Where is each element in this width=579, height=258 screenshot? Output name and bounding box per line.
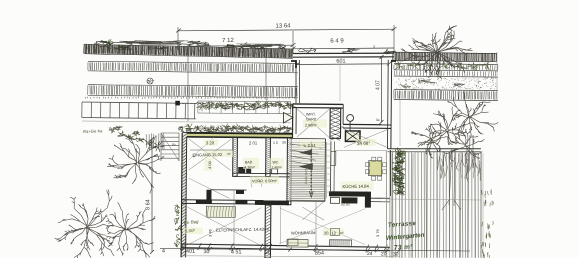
- exterior stair: [161, 133, 179, 161]
- shaft box with X: [345, 131, 360, 142]
- svg-text:3 76: 3 76: [375, 228, 380, 237]
- deck board break line: [387, 199, 482, 200]
- svg-text:20.: 20.: [324, 230, 330, 235]
- wardrobe line entrance: [190, 149, 232, 151]
- bedroom diagonals: [187, 207, 261, 246]
- svg-text:VORR. 6.50m²: VORR. 6.50m²: [252, 179, 278, 183]
- svg-text:7 12: 7 12: [222, 38, 234, 44]
- bath fixtures dark: [238, 167, 245, 174]
- svg-text:WC: WC: [272, 160, 278, 164]
- svg-text:m²: m²: [340, 231, 344, 235]
- garage corner marks: [291, 61, 296, 68]
- svg-text:854: 854: [315, 250, 324, 256]
- palm hanging fringe: [437, 153, 481, 183]
- svg-text:m²: m²: [227, 152, 231, 156]
- svg-text:24: 24: [367, 251, 373, 257]
- winter garden diagonal: [297, 109, 329, 137]
- dining table with chairs: [369, 161, 382, 176]
- south wall: [182, 244, 390, 247]
- svg-text:GARD.: GARD.: [306, 117, 317, 121]
- hedge band lower right: [394, 89, 498, 100]
- interior wall stair hall: [287, 138, 292, 205]
- svg-text:ELTERNSCHLAFZ. 14.42m²: ELTERNSCHLAFZ. 14.42m²: [216, 227, 270, 233]
- palm trunks: [442, 135, 473, 210]
- scatter shrubs left: [109, 127, 116, 133]
- north wall right wing: [343, 123, 391, 125]
- svg-text:E̲INGANG 15.02: E̲INGANG 15.02: [192, 152, 223, 158]
- small furniture boxes above dim: [288, 239, 298, 246]
- svg-text:3 20: 3 20: [206, 140, 215, 145]
- dimension line 13 64: [176, 25, 397, 53]
- svg-text:6 4 9: 6 4 9: [330, 38, 344, 44]
- tree 1 top right: [401, 26, 473, 80]
- svg-text:3: 3: [373, 45, 375, 49]
- shrub row above north wall: [178, 126, 188, 132]
- stair walking line beads: [310, 142, 312, 194]
- svg-text:3 46: 3 46: [208, 228, 213, 237]
- west wall: [181, 133, 187, 258]
- radiator: [330, 240, 352, 247]
- svg-text:BAD: BAD: [245, 160, 253, 164]
- svg-text:1o: 1o: [150, 144, 154, 148]
- svg-text:5.60²: 5.60²: [185, 228, 196, 234]
- tree 2 right middle: [424, 107, 475, 145]
- planter strip east of house: [395, 148, 405, 155]
- east wall: [386, 60, 389, 149]
- central wall T: [255, 200, 289, 205]
- winter garden hatched wall column: [330, 108, 341, 138]
- svg-text:3d: 3d: [282, 140, 286, 144]
- svg-text:≥2.02: ≥2.02: [341, 202, 350, 206]
- corridor wall below bath: [233, 172, 292, 175]
- wohnraum west edge faint: [280, 206, 282, 244]
- svg-text:4 04: 4 04: [207, 160, 212, 169]
- fence band lower left: [88, 84, 298, 97]
- svg-text:9o: 9o: [172, 142, 176, 146]
- star plants on right wall: [395, 61, 403, 70]
- east wall lower: [390, 150, 392, 196]
- living room diagonals: [279, 208, 365, 245]
- entrance room diagonals: [189, 139, 231, 170]
- tree 3 left middle: [107, 134, 164, 193]
- svg-text:Bu·Bag: Bu·Bag: [184, 219, 200, 225]
- entrance triangle marker: [284, 113, 294, 124]
- kitchen counters dark: [331, 151, 336, 165]
- svg-text:WINT.: WINT.: [306, 112, 316, 116]
- kitchen west wall: [329, 141, 331, 191]
- faint bottom line: [180, 255, 400, 258]
- garage top wall double line: [293, 52, 394, 54]
- fence band upper left: [88, 61, 298, 73]
- terrace deck boards: [386, 151, 481, 258]
- second grid line below pergola: [82, 121, 196, 122]
- svg-text:↳ 2.51: ↳ 2.51: [303, 143, 317, 148]
- column circle: [347, 115, 354, 122]
- closet stubs: [206, 190, 211, 201]
- bedroom north wall: [182, 199, 263, 202]
- tree 4 bottom left: [55, 190, 115, 258]
- hedge band top left: [84, 44, 293, 59]
- fine dash row: [85, 97, 295, 99]
- svg-text:2 01: 2 01: [249, 140, 258, 145]
- svg-text:KÜCHE 14.84: KÜCHE 14.84: [342, 184, 369, 189]
- stair section diagonals: [302, 207, 324, 220]
- svg-text:34 68°: 34 68°: [357, 141, 371, 146]
- living north wall segments: [329, 191, 367, 196]
- continuous shrub fringe on hedge top: [112, 41, 189, 45]
- west plants green: [175, 205, 180, 210]
- svg-text:4 07: 4 07: [376, 80, 382, 90]
- garden edge verticals right: [496, 52, 498, 100]
- small plant circle between fences: [147, 78, 153, 84]
- svg-text:4 51: 4 51: [231, 249, 242, 255]
- interior wall bath right: [266, 138, 271, 177]
- vertical dimension 8 64: [151, 139, 153, 252]
- garden path vertical lines: [187, 44, 189, 121]
- highlight patches: [204, 140, 218, 146]
- sofa: [287, 239, 308, 247]
- svg-text:4.30m²: 4.30m²: [244, 165, 255, 169]
- stair winder fan: [290, 144, 322, 165]
- building group: [180, 58, 482, 258]
- svg-text:401: 401: [186, 249, 195, 255]
- stone wall rows right: [394, 63, 498, 77]
- svg-text:30: 30: [203, 249, 209, 255]
- hedge band top right: [393, 52, 497, 62]
- corridor door arc: [252, 177, 262, 187]
- svg-text:2.98m²: 2.98m²: [305, 123, 318, 127]
- shelf strip next to stair: [326, 142, 328, 198]
- staircase: [289, 138, 325, 201]
- svg-text:2.46m²: 2.46m²: [271, 165, 282, 169]
- svg-text:13 64: 13 64: [275, 23, 291, 29]
- winter garden room: [293, 103, 343, 105]
- kitchen zone line: [335, 150, 387, 152]
- svg-text:WOHNRAUM: WOHNRAUM: [291, 230, 316, 235]
- shrub scribbles on top hedge: [94, 40, 111, 48]
- svg-text:1 5: 1 5: [273, 141, 278, 145]
- svg-text:Gehb 9x25: Gehb 9x25: [304, 168, 308, 184]
- svg-text:8 64: 8 64: [146, 199, 152, 210]
- svg-text:3a: 3a: [376, 118, 380, 122]
- svg-text:24: 24: [340, 125, 344, 129]
- svg-text:20: 20: [265, 250, 271, 256]
- dashed path edge and post: [178, 102, 222, 104]
- svg-text:4: 4: [162, 248, 165, 254]
- planter row with shrubs: [198, 101, 291, 114]
- dimension line 6 4 9: [293, 47, 394, 50]
- svg-text:601: 601: [336, 58, 345, 64]
- svg-text:Ra+Ge·ha: Ra+Ge·ha: [83, 128, 103, 134]
- gravel area with dots: [396, 78, 496, 90]
- vertical dim line bedroom: [233, 190, 235, 250]
- interior wall bath left: [233, 137, 238, 176]
- dimension line 601: [298, 63, 390, 66]
- grass edge right: [481, 189, 494, 258]
- terrace top edge: [387, 148, 480, 150]
- tree 5 bottom left second: [106, 202, 155, 257]
- living room cross diagonals: [344, 129, 388, 148]
- bed: [206, 206, 235, 217]
- pergola grid row: [82, 102, 196, 119]
- dimension line 7 12: [178, 45, 293, 46]
- north wall left wing: [182, 133, 292, 138]
- bottom dimension line: [160, 249, 470, 251]
- vertical dimension 4 07: [381, 57, 383, 122]
